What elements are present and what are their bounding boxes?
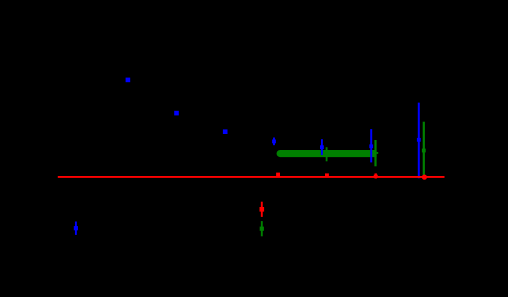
legend blue errorbar glyph (75, 222, 77, 235)
green error bar, point 1 (x=326.6) (326, 147, 328, 161)
blue marker, point 3 (369, 144, 373, 148)
red marker 2 (x=327) (325, 173, 329, 177)
green marker, point 3 (422, 149, 426, 153)
blue square point C (isolated) (223, 129, 228, 134)
green thick horizontal bar (277, 150, 377, 157)
red marker 3 (x=375.7, plus) (375, 173, 377, 178)
blue square point A (isolated) (126, 78, 131, 83)
blue error bar, point 2 (x=321.9) (321, 139, 323, 155)
green bar right nub (377, 152, 379, 154)
green error bar, point 2 (x=375.0) (374, 140, 376, 166)
legend red errorbar glyph (261, 202, 263, 217)
red marker 4 (x=424.4, circle) (422, 175, 427, 180)
blue square point B (isolated) (174, 111, 179, 116)
blue marker, point 1 (272, 140, 276, 144)
blue error bar, point 4 (x=418.8) (418, 103, 420, 179)
red marker 1 (x=278) (276, 173, 280, 177)
blue error bar, point 1 (x=274) (273, 138, 275, 146)
blue marker, point 2 (320, 145, 324, 149)
legend green errorbar glyph (261, 221, 263, 236)
red baseline (58, 176, 445, 178)
blue error bar, point 3 (x=371.2) (370, 129, 372, 162)
green error bar, point 3 (x=423.8) (423, 122, 425, 178)
blue marker, point 4 (417, 138, 421, 142)
